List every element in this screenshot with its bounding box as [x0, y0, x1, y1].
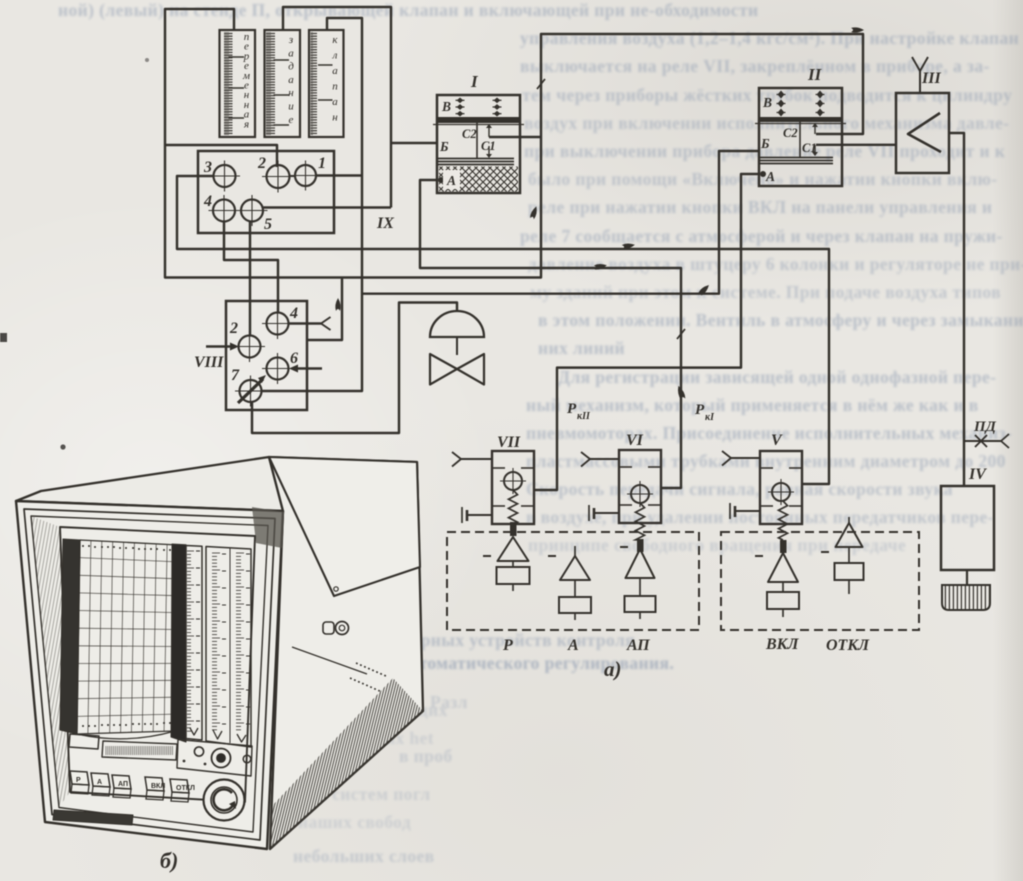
wire: branch left into unit I chamber C1: [489, 136, 541, 138]
unit I membrane (В/Б): [437, 117, 520, 123]
lower panel small window: [69, 734, 99, 749]
III chevron: [908, 113, 941, 152]
positioner IV body: [941, 486, 994, 570]
bottom model bar: [53, 810, 133, 825]
svg-text:7: 7: [231, 367, 240, 384]
wire: «задание» net — scale top bracket to unit I port Б: [283, 7, 391, 208]
svg-text:С1: С1: [481, 139, 496, 153]
svg-text:IX: IX: [376, 215, 394, 232]
svg-text:4: 4: [289, 305, 298, 322]
svg-text:А: А: [765, 169, 775, 184]
ПД bleed tap: [964, 440, 1001, 442]
wire: relay VIII nozzle 7 loop to control valve: [252, 303, 457, 434]
VIII vent fork from nozzle 4: [289, 322, 321, 324]
button ВКЛ plunger: [780, 540, 787, 553]
push-button group box 2 (dashed): [721, 532, 919, 630]
unit I body: [437, 95, 520, 193]
nameplate ruler: [102, 741, 177, 760]
IV knob: [942, 585, 990, 610]
IX nozzle 3: [214, 165, 236, 187]
button Р plunger: [510, 522, 517, 536]
svg-text:и: и: [288, 101, 294, 113]
svg-text:В: В: [441, 99, 451, 114]
svg-text:кI: кI: [705, 412, 715, 423]
button Р: [498, 537, 529, 561]
VIII nozzle 6: [267, 358, 289, 380]
side seam line: [292, 647, 367, 674]
svg-text:ВКЛ: ВКЛ: [765, 636, 800, 653]
svg-text:Р: Р: [76, 777, 81, 784]
unit I spring stacks: [457, 98, 464, 104]
wire: relay IX nozzle 5 row to задание rail: [264, 206, 392, 208]
svg-text:2: 2: [229, 320, 238, 337]
wire: unit II port А to pilot valve VII: [534, 174, 760, 490]
button row: Р А АП ВКЛ ОТКЛ: [70, 771, 89, 785]
flag arrow at top corner near unit II: [851, 27, 864, 32]
flag arrow near unit II port Б corner: [698, 283, 711, 296]
chart roll bottom curve: [77, 731, 175, 739]
side dotted vent rows: [356, 663, 386, 676]
scale strip B with ticks: [206, 547, 251, 748]
svg-text:д: д: [288, 61, 294, 73]
wire: branch to relay IX nozzle 2 (net «переменная»): [165, 145, 277, 167]
unit II membrane lower: [759, 157, 833, 159]
svg-text:н: н: [332, 112, 338, 124]
relay block VIII body: [226, 301, 307, 410]
scale pointer «клапан» (valve): [309, 30, 344, 137]
unit II body: [759, 88, 842, 186]
wire: relay IX nozzle 4 down to relay VIII nozzle 4: [224, 221, 278, 313]
unit I label А: [443, 170, 460, 189]
svg-text:а: а: [332, 96, 338, 108]
svg-text:е: е: [289, 114, 294, 126]
wire: unit II chamber C1 to amplifier III: [816, 144, 896, 146]
amplifier III body: [896, 93, 949, 173]
pilot valve VII body: [492, 451, 534, 524]
svg-text:С2: С2: [783, 126, 798, 140]
svg-text:Р: Р: [502, 637, 513, 654]
scale pointer «задание» (setpoint): [265, 30, 301, 137]
svg-text:А: А: [97, 779, 102, 786]
svg-text:н: н: [288, 87, 294, 99]
IX nozzle 1: [295, 165, 316, 186]
door window: [60, 527, 255, 802]
VI vent symbol: [588, 505, 590, 521]
unit I membrane lower: [437, 158, 514, 160]
pilot valve VI body: [619, 450, 661, 523]
VI input fork: [590, 458, 619, 460]
svg-text:А: А: [446, 173, 456, 188]
svg-text:3: 3: [203, 159, 212, 176]
flag arrow on unit I port А run: [594, 263, 608, 271]
bezel left shading: [31, 516, 70, 807]
unit II membrane (В/Б): [759, 117, 842, 122]
svg-text:1: 1: [318, 155, 326, 172]
svg-text:ПД: ПД: [973, 419, 997, 435]
break tick on riser: [537, 79, 545, 89]
push-button group box 1 (dashed): [447, 532, 699, 630]
IX nozzle 4: [213, 200, 235, 222]
svg-text:АП: АП: [626, 637, 650, 654]
scale pointer «переменная» (process variable): [220, 30, 256, 137]
IV stem: [966, 570, 968, 585]
VIII nozzle 2: [239, 336, 261, 358]
unit II chamber divider: [799, 122, 801, 157]
svg-text:I: I: [470, 72, 479, 91]
junction dot at unit I port А: [438, 177, 444, 183]
unit II gap arrows: [814, 127, 816, 135]
svg-text:6: 6: [290, 350, 298, 367]
svg-text:к: к: [332, 34, 338, 46]
svg-text:л: л: [332, 50, 338, 62]
VIII input arrow to nozzle 6: [297, 367, 322, 369]
flag arrow on long bottom rail: [622, 242, 636, 250]
button А: [574, 546, 576, 556]
recorder б): case top face: [16, 457, 283, 511]
unit I chamber divider: [476, 123, 478, 158]
button АП: [626, 549, 655, 578]
side carry knob: [323, 622, 334, 634]
V vent symbol: [729, 503, 731, 519]
big knob: [204, 780, 245, 821]
unit II spring stacks: [778, 91, 785, 99]
wire: unit I port А to pilot valve VI: [420, 180, 681, 488]
small control cluster: [177, 740, 252, 777]
svg-text:з: з: [288, 34, 293, 46]
control valve stem: [456, 337, 458, 355]
svg-text:ВКЛ: ВКЛ: [151, 783, 165, 790]
wire: «переменная» net — scale top bracket, left rail down to junction row: [165, 9, 863, 278]
chart right dark strip: [171, 544, 186, 742]
stray ink dot left margin: [0, 333, 7, 342]
svg-text:а: а: [288, 74, 294, 86]
svg-text:5: 5: [264, 216, 272, 233]
svg-text:В: В: [762, 95, 772, 110]
svg-text:С2: С2: [462, 127, 477, 141]
svg-text:п: п: [332, 81, 338, 93]
wire: «клапан» net — scale top bracket, long rail down to relay VIII nozzle 7: [261, 18, 362, 391]
recorder front panel: [16, 501, 283, 849]
IX nozzle 2: [267, 165, 290, 188]
wire: «клапан» rail branch to unit II port Б: [362, 151, 760, 294]
VIII input arrow to nozzle 2: [206, 345, 231, 347]
svg-text:а: а: [332, 65, 338, 77]
wire: relay IX nozzle 5 down to relay VIII nozzle 2: [249, 221, 251, 336]
button АП plunger: [637, 539, 644, 552]
VI spring: [636, 503, 645, 540]
front bezel frame 3: [31, 516, 268, 832]
svg-text:IV: IV: [968, 466, 987, 483]
wire: branch to unit I port Б: [391, 142, 437, 144]
junction dot at unit II port А: [760, 171, 766, 177]
svg-text:Б: Б: [760, 136, 770, 151]
V spring: [779, 501, 788, 540]
svg-text:а): а): [604, 657, 622, 681]
svg-text:кII: кII: [577, 411, 591, 422]
svg-text:III: III: [921, 70, 941, 87]
wire: amplifier III output down to positioner IV: [949, 133, 964, 486]
flag blob on Р_кI riser: [676, 385, 686, 400]
svg-text:VI: VI: [626, 432, 644, 449]
VII vent symbol: [461, 507, 463, 523]
svg-text:б): б): [160, 848, 178, 873]
VII input fork: [461, 458, 492, 460]
unit I chamber А crosshatch: [439, 167, 518, 192]
svg-text:V: V: [771, 432, 783, 449]
recorder side hatch shading: [270, 678, 423, 849]
IX nozzle 5: [241, 200, 263, 222]
relay block IX body: [198, 151, 334, 233]
unit I gap arrows: [488, 128, 490, 138]
svg-text:Р: Р: [567, 401, 577, 417]
control valve actuator dome: [430, 311, 484, 337]
VIII nozzle 7 adjustment stroke: [238, 379, 263, 403]
break tick on riser to VI: [677, 329, 685, 339]
button ВКЛ: [768, 553, 798, 582]
flap screw: [334, 587, 338, 591]
VIII nozzle 7: [240, 380, 262, 402]
chart paper and grid: [77, 540, 178, 734]
svg-text:А: А: [567, 637, 579, 654]
svg-text:II: II: [807, 65, 823, 84]
svg-text:Б: Б: [439, 139, 449, 154]
svg-text:ОТКЛ: ОТКЛ: [826, 637, 870, 654]
svg-text:АП: АП: [118, 781, 128, 788]
chart left dark strip: [60, 539, 80, 734]
button ОТКЛ: [848, 517, 850, 523]
control valve body (butterfly): [430, 354, 457, 385]
svg-text:4: 4: [203, 193, 212, 210]
flag arrow on VIII branch: [335, 298, 340, 311]
svg-text:2: 2: [257, 155, 266, 172]
recorder side flap panel: [269, 457, 420, 596]
flag arrow on riser to unit I: [529, 206, 538, 220]
V input fork: [731, 457, 760, 459]
svg-text:VIII: VIII: [194, 354, 224, 371]
bezel top-right dark patch: [252, 507, 284, 548]
svg-text:ОТКЛ: ОТКЛ: [176, 785, 195, 792]
III vent antenna: [919, 71, 921, 93]
svg-text:VII: VII: [497, 434, 521, 451]
scale strip A with ticks: [186, 546, 202, 741]
pilot valve V body: [760, 451, 802, 524]
VIII nozzle 4: [267, 313, 289, 335]
svg-text:Р: Р: [695, 402, 705, 418]
chart perforation dots top and bottom: [82, 545, 84, 547]
svg-text:я: я: [243, 118, 249, 130]
front bezel frame 2: [24, 509, 275, 840]
wire: relay IX nozzle 3 to pilot valve V (long bottom rail): [177, 176, 829, 484]
wire: branch down to relay VIII right port: [306, 278, 342, 341]
wire: relay IX nozzle 1 to «клапан» rail: [317, 174, 363, 176]
svg-text:а: а: [288, 47, 294, 59]
recorder case side face: [269, 457, 423, 849]
VII spring: [509, 490, 518, 524]
